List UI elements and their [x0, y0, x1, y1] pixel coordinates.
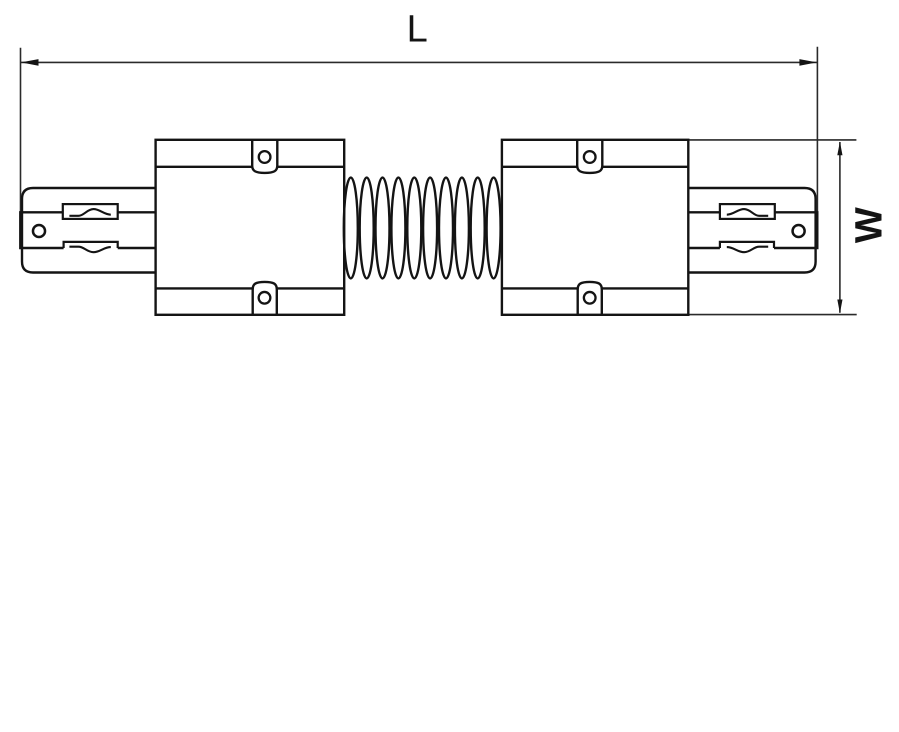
left lower contact spring wave	[69, 247, 110, 253]
right end-cap rounded housing	[682, 188, 816, 273]
right adapter body group	[502, 140, 688, 315]
right top screw tab	[577, 140, 602, 173]
flexible spring coils	[344, 178, 501, 279]
left body top strip line	[156, 166, 345, 168]
svg-text:W: W	[849, 207, 891, 243]
left body bottom strip line	[156, 287, 345, 289]
L dimension left extension line	[20, 48, 22, 213]
right end-cap group (mirror of left)	[682, 188, 818, 273]
left upper contact spring wave	[69, 209, 110, 216]
W dimension bottom extension line	[689, 314, 857, 316]
right body top strip line	[502, 166, 688, 168]
left top screw hole	[259, 151, 271, 163]
L left arrowhead	[21, 59, 39, 66]
right lower contact window	[720, 242, 774, 248]
right end-cap pilot hole	[793, 225, 805, 237]
left lower contact window	[64, 242, 118, 248]
right upper contact spring wave	[727, 209, 768, 216]
W bottom arrowhead	[837, 300, 842, 314]
right body outline	[502, 140, 688, 315]
left body outline	[156, 140, 345, 315]
left upper contact window	[63, 204, 118, 219]
L dimension line	[21, 61, 818, 63]
L right arrowhead	[799, 59, 817, 66]
right upper contact window	[720, 204, 775, 219]
left end-cap group	[20, 188, 156, 273]
left end-cap middle tongue outline	[20, 212, 156, 248]
L dimension right extension line	[816, 47, 818, 213]
right bottom screw hole	[584, 292, 596, 304]
right lower contact spring wave	[727, 247, 768, 253]
right top screw hole	[584, 151, 596, 163]
W dimension line	[839, 142, 841, 313]
W dimension top extension line	[689, 139, 856, 141]
left end-cap pilot hole	[33, 225, 45, 237]
svg-text:L: L	[407, 9, 428, 51]
left top screw tab	[252, 140, 277, 173]
left bottom screw tab	[253, 282, 277, 315]
right body bottom strip line	[502, 287, 688, 289]
right bottom screw tab	[578, 282, 602, 315]
left bottom screw hole	[259, 292, 271, 304]
W top arrowhead	[837, 142, 842, 156]
right end-cap middle tongue outline	[682, 212, 818, 248]
left end-cap rounded housing	[22, 188, 156, 273]
left adapter body group	[156, 140, 345, 315]
